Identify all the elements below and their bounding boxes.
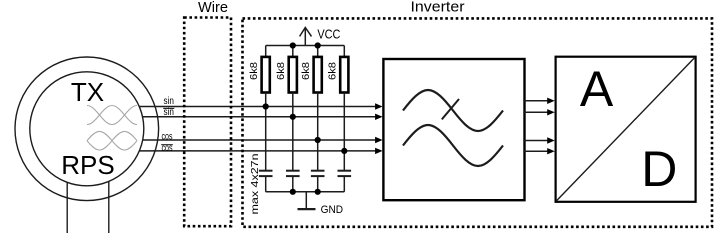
- svg-text:TX: TX: [71, 77, 104, 107]
- resistor R2 6k8: [275, 46, 297, 93]
- wire filter to ADC ch2: [523, 109, 554, 115]
- wire /cos (node cos inverted): [139, 150, 377, 152]
- arrowhead cos into filter: [375, 137, 383, 143]
- capacitor C4: [338, 171, 352, 192]
- ground bus wire: [266, 191, 345, 193]
- VCC rail wire: [266, 45, 345, 47]
- resistor R1 6k8: [248, 46, 270, 93]
- svg-text:sin: sin: [164, 95, 175, 107]
- svg-text:6k8: 6k8: [327, 62, 339, 80]
- label /sin with overline: [163, 106, 174, 118]
- Inverter boundary dashed box: [243, 18, 713, 226]
- svg-text:Inverter: Inverter: [411, 0, 465, 16]
- wire filter to ADC ch1: [523, 98, 554, 104]
- svg-text:Wire: Wire: [198, 0, 228, 16]
- junction dot VCC rail R2: [290, 42, 296, 48]
- svg-text:cos: cos: [162, 142, 173, 154]
- filter top sine wave: [403, 90, 503, 131]
- svg-text:6k8: 6k8: [248, 62, 260, 80]
- svg-text:GND: GND: [321, 204, 344, 216]
- wire sin (node sin): [139, 106, 377, 108]
- junction dot ground bus C2: [290, 189, 296, 195]
- VCC arrow symbol: [300, 28, 312, 46]
- ADC block U2: [556, 57, 696, 202]
- resistor R3 6k8: [300, 46, 322, 93]
- wire R2 column: [292, 93, 294, 171]
- svg-text:D: D: [641, 141, 677, 197]
- svg-text:6k8: 6k8: [300, 62, 312, 80]
- cos winding (gray eye coils): [87, 131, 137, 150]
- wire R4 column: [343, 93, 345, 171]
- svg-text:A: A: [580, 61, 614, 117]
- wire cos (node cos): [143, 139, 377, 141]
- sin winding (gray crossed coils): [87, 106, 137, 125]
- resolver TX/RPS outer circle: [15, 57, 159, 201]
- capacitor C3: [311, 171, 325, 192]
- resistor R4 6k8: [327, 46, 349, 93]
- capacitor C2: [286, 171, 300, 192]
- junction dot /sin/R2: [290, 114, 296, 120]
- Wire boundary dashed box: [184, 18, 231, 227]
- filter cross mark: [442, 99, 459, 119]
- capacitor C1: [259, 171, 273, 192]
- svg-text:max 4x27n: max 4x27n: [249, 153, 261, 214]
- filter bottom sine wave: [403, 125, 503, 166]
- svg-text:VCC: VCC: [317, 27, 340, 42]
- junction dot cos/R3: [315, 137, 321, 143]
- resolver inner circle: [30, 72, 144, 186]
- junction dot VCC rail R3: [315, 42, 321, 48]
- junction dot sin/R1: [263, 103, 269, 109]
- junction dot /cos/R4: [341, 148, 347, 154]
- ADC diagonal: [556, 57, 695, 201]
- ground symbol: [298, 192, 316, 209]
- arrowhead /sin into filter: [375, 114, 383, 120]
- svg-text:6k8: 6k8: [275, 62, 287, 80]
- rotor lead wire right: [108, 181, 110, 233]
- rotor lead wire left: [66, 182, 68, 233]
- wire /sin (node sin inverted): [143, 116, 378, 118]
- junction dot ground bus C3: [315, 189, 321, 195]
- wire filter to ADC ch4: [523, 148, 554, 154]
- arrowhead sin into filter: [375, 103, 383, 109]
- svg-text:RPS: RPS: [61, 150, 114, 180]
- wire filter to ADC ch3: [523, 137, 554, 143]
- svg-text:cos: cos: [162, 130, 173, 142]
- wire R1 column (resistor to capacitor C1): [265, 93, 267, 171]
- arrowhead /cos into filter: [375, 148, 383, 154]
- filter block U1: [383, 59, 524, 200]
- label /cos with overline: [161, 142, 173, 154]
- wire R3 column: [317, 93, 319, 171]
